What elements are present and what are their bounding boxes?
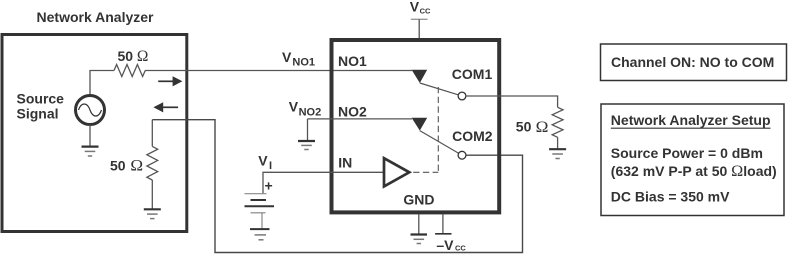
svg-text:Source Power = 0 dBm: Source Power = 0 dBm	[611, 145, 763, 161]
svg-text:+: +	[265, 178, 273, 194]
svg-text:NO1: NO1	[292, 56, 315, 68]
svg-text:Source: Source	[17, 91, 65, 107]
svg-text:CC: CC	[420, 7, 431, 16]
svg-text:V: V	[410, 0, 420, 14]
svg-text:V: V	[289, 99, 299, 115]
svg-text:IN: IN	[338, 154, 352, 170]
svg-text:Ω: Ω	[137, 46, 149, 65]
svg-text:CC: CC	[455, 244, 466, 253]
svg-text:–V: –V	[436, 237, 454, 253]
svg-text:Channel ON: NO to COM: Channel ON: NO to COM	[611, 54, 774, 70]
svg-text:COM1: COM1	[452, 66, 493, 82]
svg-text:(632 mV P-P at 50 Ωload): (632 mV P-P at 50 Ωload)	[611, 161, 777, 180]
svg-text:Ω: Ω	[536, 117, 549, 136]
svg-text:NO2: NO2	[338, 103, 367, 119]
svg-text:Network Analyzer: Network Analyzer	[37, 9, 155, 25]
svg-text:Ω: Ω	[130, 156, 143, 175]
svg-text:DC Bias = 350 mV: DC Bias = 350 mV	[611, 189, 730, 205]
svg-text:50: 50	[118, 48, 134, 64]
svg-text:50: 50	[516, 119, 532, 135]
svg-text:COM2: COM2	[452, 128, 493, 144]
svg-text:GND: GND	[403, 192, 434, 208]
svg-text:Network Analyzer Setup: Network Analyzer Setup	[611, 112, 771, 128]
svg-text:I: I	[269, 160, 272, 172]
svg-text:Signal: Signal	[17, 106, 59, 122]
svg-text:V: V	[282, 49, 292, 65]
svg-text:50: 50	[110, 158, 126, 174]
svg-text:NO1: NO1	[338, 53, 367, 69]
svg-text:NO2: NO2	[299, 107, 322, 119]
svg-text:V: V	[258, 153, 268, 169]
